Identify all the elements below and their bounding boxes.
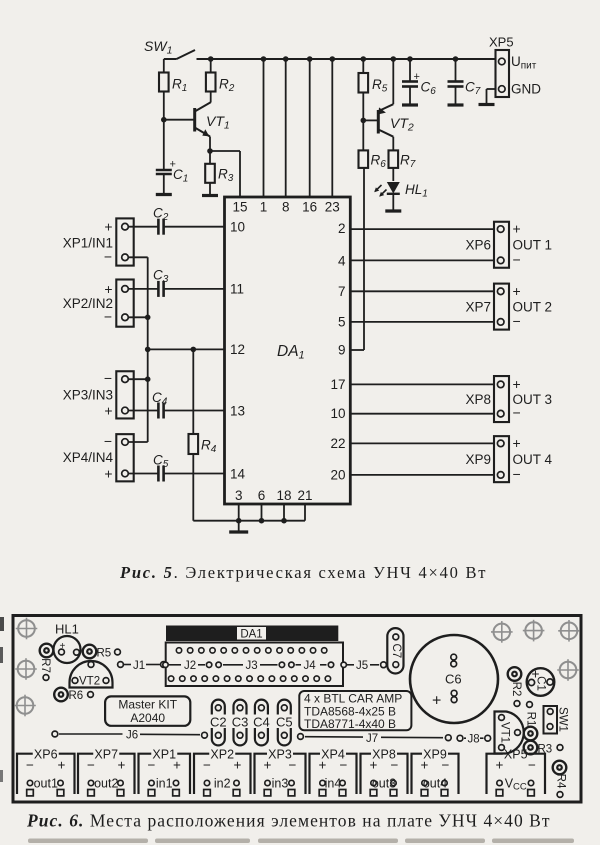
IC DA1 (board) — [166, 626, 338, 642]
svg-text:XP2/IN2: XP2/IN2 — [63, 296, 113, 311]
mounting hole — [16, 618, 38, 640]
svg-text:15: 15 — [232, 200, 247, 215]
connector XP8 (board) — [361, 748, 408, 796]
svg-text:XP6: XP6 — [465, 237, 491, 252]
svg-text:4: 4 — [338, 254, 346, 269]
jumper J8 — [457, 734, 491, 746]
capacitor C7 (board) — [387, 628, 403, 673]
capacitor C4 (board) — [253, 700, 270, 746]
capacitor C4 — [128, 390, 224, 419]
svg-text:16: 16 — [302, 200, 317, 215]
capacitor C2 — [128, 206, 224, 235]
jumper J1 — [118, 660, 167, 672]
svg-text:11: 11 — [230, 282, 244, 297]
connector XP4 (board) — [310, 748, 357, 796]
mounting hole — [14, 695, 36, 717]
transistor VT2 — [363, 56, 414, 150]
wire pin2 to XP6 — [350, 228, 494, 230]
svg-text:+: + — [414, 71, 420, 83]
svg-text:22: 22 — [330, 436, 345, 451]
svg-text:−: − — [513, 466, 521, 482]
resistor R1 (board) — [524, 702, 538, 741]
svg-text:−: − — [104, 248, 112, 264]
svg-text:C5: C5 — [276, 715, 293, 730]
svg-text:XP7: XP7 — [94, 748, 118, 762]
switch SW1 — [144, 38, 195, 59]
ground — [156, 193, 172, 196]
svg-text:XP9: XP9 — [465, 452, 491, 467]
svg-text:−: − — [104, 370, 112, 386]
svg-text:1: 1 — [260, 200, 268, 215]
svg-text:+: + — [513, 376, 521, 392]
svg-text:J2: J2 — [184, 660, 196, 672]
svg-text:2: 2 — [338, 221, 346, 236]
wire pin1 — [261, 56, 267, 197]
svg-text:10: 10 — [330, 406, 345, 421]
svg-text:in4: in4 — [325, 777, 342, 791]
svg-text:+: + — [104, 403, 112, 419]
capacitor C5 (board) — [276, 700, 293, 746]
svg-text:3: 3 — [235, 488, 243, 503]
mounting hole — [558, 620, 580, 642]
svg-text:12: 12 — [230, 342, 245, 357]
svg-text:out4: out4 — [423, 777, 447, 791]
svg-text:6: 6 — [258, 488, 266, 503]
svg-text:OUT 1: OUT 1 — [513, 237, 553, 252]
LED HL1 (board) — [54, 622, 81, 664]
transistor VT1 — [164, 92, 230, 152]
wire pin9 to R6 — [350, 168, 364, 350]
resistor R7 — [389, 150, 416, 181]
wire pin7 to XP7 — [350, 290, 494, 292]
svg-text:+: + — [104, 281, 112, 297]
svg-text:R5: R5 — [97, 648, 112, 660]
svg-text:+: + — [264, 758, 272, 773]
capacitor C6 — [402, 56, 436, 104]
capacitor C2 (board) — [210, 700, 227, 746]
svg-text:XP7: XP7 — [465, 299, 491, 314]
switch SW1 (board) — [544, 706, 569, 734]
resistor R7 (board) — [39, 644, 54, 681]
svg-text:C7: C7 — [390, 643, 402, 658]
svg-text:GND: GND — [511, 82, 541, 97]
svg-text:+: + — [531, 666, 539, 682]
resistor R5 — [359, 56, 388, 120]
capacitor C6 (board) — [410, 635, 498, 723]
svg-text:23: 23 — [325, 200, 340, 215]
svg-text:5: 5 — [338, 315, 346, 330]
svg-text:A2040: A2040 — [130, 711, 165, 725]
svg-text:XP5: XP5 — [489, 35, 514, 50]
wire pin22 to XP9 — [350, 442, 494, 444]
connector XP8 — [465, 376, 552, 422]
svg-text:8: 8 — [282, 200, 290, 215]
wire input-common bus — [128, 257, 150, 442]
connector XP7 (board) — [78, 748, 135, 796]
svg-text:XP5: XP5 — [504, 748, 528, 762]
svg-text:+: + — [513, 435, 521, 451]
svg-text:J1: J1 — [133, 660, 145, 672]
svg-text:J8: J8 — [468, 734, 480, 746]
connector XP9 (board) — [412, 748, 459, 796]
LED HL1 — [374, 182, 428, 210]
capacitor C7 — [448, 56, 481, 104]
connector XP1 (board) — [139, 748, 191, 796]
jumper J7 — [298, 733, 452, 745]
connector XP7 — [465, 283, 552, 330]
wire pin20 to XP9 — [350, 474, 494, 476]
mounting hole — [491, 621, 513, 643]
wire to pin 15 — [210, 151, 240, 197]
connector XP5 — [487, 35, 542, 104]
wire pin16 — [307, 56, 313, 197]
svg-text:VT2: VT2 — [79, 676, 100, 688]
svg-text:out2: out2 — [94, 777, 118, 791]
capacitor C5 — [128, 453, 224, 482]
svg-text:XP2: XP2 — [210, 748, 234, 762]
svg-text:18: 18 — [276, 488, 291, 503]
svg-text:R2: R2 — [510, 682, 522, 697]
svg-text:20: 20 — [330, 468, 345, 483]
svg-text:−: − — [340, 758, 348, 773]
resistor R1 — [159, 59, 187, 120]
svg-text:C4: C4 — [253, 715, 270, 730]
resistor R4 — [189, 347, 217, 521]
caption figure 6 — [26, 811, 551, 831]
svg-text:XP4/IN4: XP4/IN4 — [63, 450, 114, 465]
svg-text:+: + — [421, 758, 429, 773]
resistor R2 — [206, 56, 235, 94]
ground — [229, 521, 248, 532]
svg-text:−: − — [528, 758, 536, 773]
svg-text:−: − — [104, 433, 112, 449]
svg-text:9: 9 — [338, 343, 346, 358]
wire: +supply rail — [197, 58, 497, 60]
svg-text:in3: in3 — [272, 777, 289, 791]
svg-text:HL1: HL1 — [55, 622, 79, 637]
resistor R2 (board) — [508, 667, 522, 706]
resistor R4 (board) — [553, 761, 567, 798]
resistor R3 — [205, 151, 234, 195]
jumper J5 — [347, 660, 386, 672]
connector XP2/IN2 — [63, 280, 134, 327]
svg-text:−: − — [203, 758, 211, 773]
connector XP3 (board) — [255, 748, 306, 796]
svg-text:−: − — [289, 758, 297, 773]
svg-text:XP3/IN3: XP3/IN3 — [63, 388, 113, 403]
svg-text:−: − — [87, 758, 95, 773]
pin numbers DA1 left — [230, 220, 246, 482]
jumper J6 — [52, 730, 207, 742]
wire pin8 — [283, 56, 289, 197]
mounting hole — [523, 620, 545, 642]
capacitor C3 — [128, 268, 224, 297]
svg-text:+: + — [513, 283, 521, 299]
svg-text:+: + — [173, 758, 181, 773]
pin numbers DA1 top — [232, 200, 339, 215]
svg-text:−: − — [148, 758, 156, 773]
node VT1-emitter junction — [207, 148, 213, 154]
svg-text:13: 13 — [230, 404, 245, 419]
PCB board outline — [13, 616, 581, 803]
svg-text:−: − — [513, 251, 521, 267]
mounting hole — [557, 659, 579, 681]
transistor VT2 (board) — [70, 661, 113, 688]
svg-text:XP6: XP6 — [34, 748, 58, 762]
svg-text:in1: in1 — [156, 777, 173, 791]
svg-text:OUT 2: OUT 2 — [513, 299, 553, 314]
DA1 socket holes — [166, 643, 343, 687]
svg-text:10: 10 — [230, 220, 245, 235]
connector XP1/IN1 — [63, 218, 134, 265]
svg-text:XP8: XP8 — [465, 392, 491, 407]
svg-text:+: + — [370, 758, 378, 773]
svg-text:7: 7 — [338, 284, 346, 299]
transistor VT1 (board) — [495, 712, 524, 754]
wire pin4 to XP6 — [350, 259, 494, 261]
svg-text:+: + — [118, 758, 126, 773]
ground — [402, 103, 418, 106]
connector XP6 — [465, 221, 552, 268]
op-amp IC DA1 — [225, 197, 351, 504]
svg-text:R1: R1 — [524, 712, 536, 727]
svg-text:R4: R4 — [554, 774, 566, 789]
svg-text:+: + — [104, 219, 112, 235]
wire pin17 to XP8 — [350, 383, 494, 385]
capacitor C3 (board) — [232, 700, 249, 746]
svg-text:SW1: SW1 — [556, 707, 568, 732]
pin numbers DA1 bottom — [235, 488, 313, 503]
svg-text:+: + — [234, 758, 242, 773]
svg-text:+: + — [496, 758, 504, 773]
svg-text:in2: in2 — [214, 777, 231, 791]
svg-text:−: − — [442, 758, 450, 773]
resistor R5 (board) — [83, 645, 121, 660]
capacitor C1 (board) — [527, 666, 555, 696]
connector XP9 — [465, 435, 552, 482]
svg-text:Рис. 6. Места расположения эле: Рис. 6. Места расположения элементов на … — [26, 811, 551, 831]
svg-text:out1: out1 — [34, 777, 58, 791]
svg-text:OUT 4: OUT 4 — [513, 452, 553, 467]
svg-text:out3: out3 — [372, 777, 396, 791]
svg-text:+: + — [513, 221, 521, 237]
connector XP6 (board) — [17, 748, 75, 796]
svg-text:21: 21 — [297, 488, 312, 503]
svg-text:C6: C6 — [445, 672, 462, 687]
svg-text:J5: J5 — [356, 660, 368, 672]
svg-text:R6: R6 — [69, 690, 84, 702]
node VT2-base junction — [361, 118, 367, 124]
svg-text:J4: J4 — [304, 660, 317, 672]
wire pin10 to XP8 — [350, 413, 494, 415]
svg-text:XP1/IN1: XP1/IN1 — [63, 236, 113, 251]
connector XP2 (board) — [194, 748, 251, 796]
svg-text:DA1: DA1 — [240, 629, 262, 641]
resistor R6 — [359, 120, 387, 170]
svg-text:OUT 3: OUT 3 — [513, 392, 553, 407]
ground — [479, 103, 495, 106]
svg-text:R7: R7 — [39, 658, 51, 673]
resistor R6 (board) — [54, 688, 93, 702]
connector XP4/IN4 — [63, 433, 134, 482]
svg-text:+: + — [104, 466, 112, 482]
svg-text:4 x BTL CAR AMP: 4 x BTL CAR AMP — [304, 691, 402, 705]
connector XP3/IN3 — [63, 370, 134, 418]
wire pin5 to XP7 — [350, 321, 494, 323]
svg-text:Рис. 5. Электрическая схема УН: Рис. 5. Электрическая схема УНЧ 4×40 Вт — [119, 563, 487, 582]
mounting hole — [15, 658, 37, 680]
wire pin12 — [145, 347, 225, 353]
svg-text:+: + — [319, 758, 327, 773]
label Master KIT A2040 — [105, 696, 190, 725]
jumpers J2 J3 J4 — [163, 660, 347, 672]
resistor R3 (board) — [524, 741, 563, 756]
svg-text:J7: J7 — [366, 733, 378, 745]
svg-text:Master KIT: Master KIT — [118, 698, 177, 712]
svg-text:C3: C3 — [232, 715, 249, 730]
ground — [448, 103, 464, 106]
ground — [202, 194, 218, 197]
caption figure 5 — [119, 563, 487, 582]
capacitor C1 — [156, 117, 189, 194]
pin numbers DA1 right — [330, 221, 346, 483]
svg-text:−: − — [513, 405, 521, 421]
svg-text:−: − — [391, 758, 399, 773]
scan artifact marks — [0, 617, 574, 843]
label amplifier types — [299, 691, 411, 731]
svg-text:+: + — [58, 758, 66, 773]
ground — [385, 209, 401, 212]
svg-text:J3: J3 — [246, 660, 258, 672]
svg-text:−: − — [513, 313, 521, 329]
svg-text:C2: C2 — [210, 715, 227, 730]
svg-text:−: − — [26, 758, 34, 773]
svg-text:14: 14 — [230, 467, 246, 482]
connector XP5 (board) — [487, 748, 546, 796]
wire pin23 — [330, 56, 336, 197]
svg-text:VT1: VT1 — [498, 722, 510, 743]
svg-text:TDA8771-4x40 В: TDA8771-4x40 В — [304, 717, 396, 731]
svg-text:J6: J6 — [126, 730, 138, 742]
svg-text:+: + — [432, 693, 441, 710]
wire ground bus — [193, 504, 305, 524]
svg-text:17: 17 — [330, 377, 345, 392]
